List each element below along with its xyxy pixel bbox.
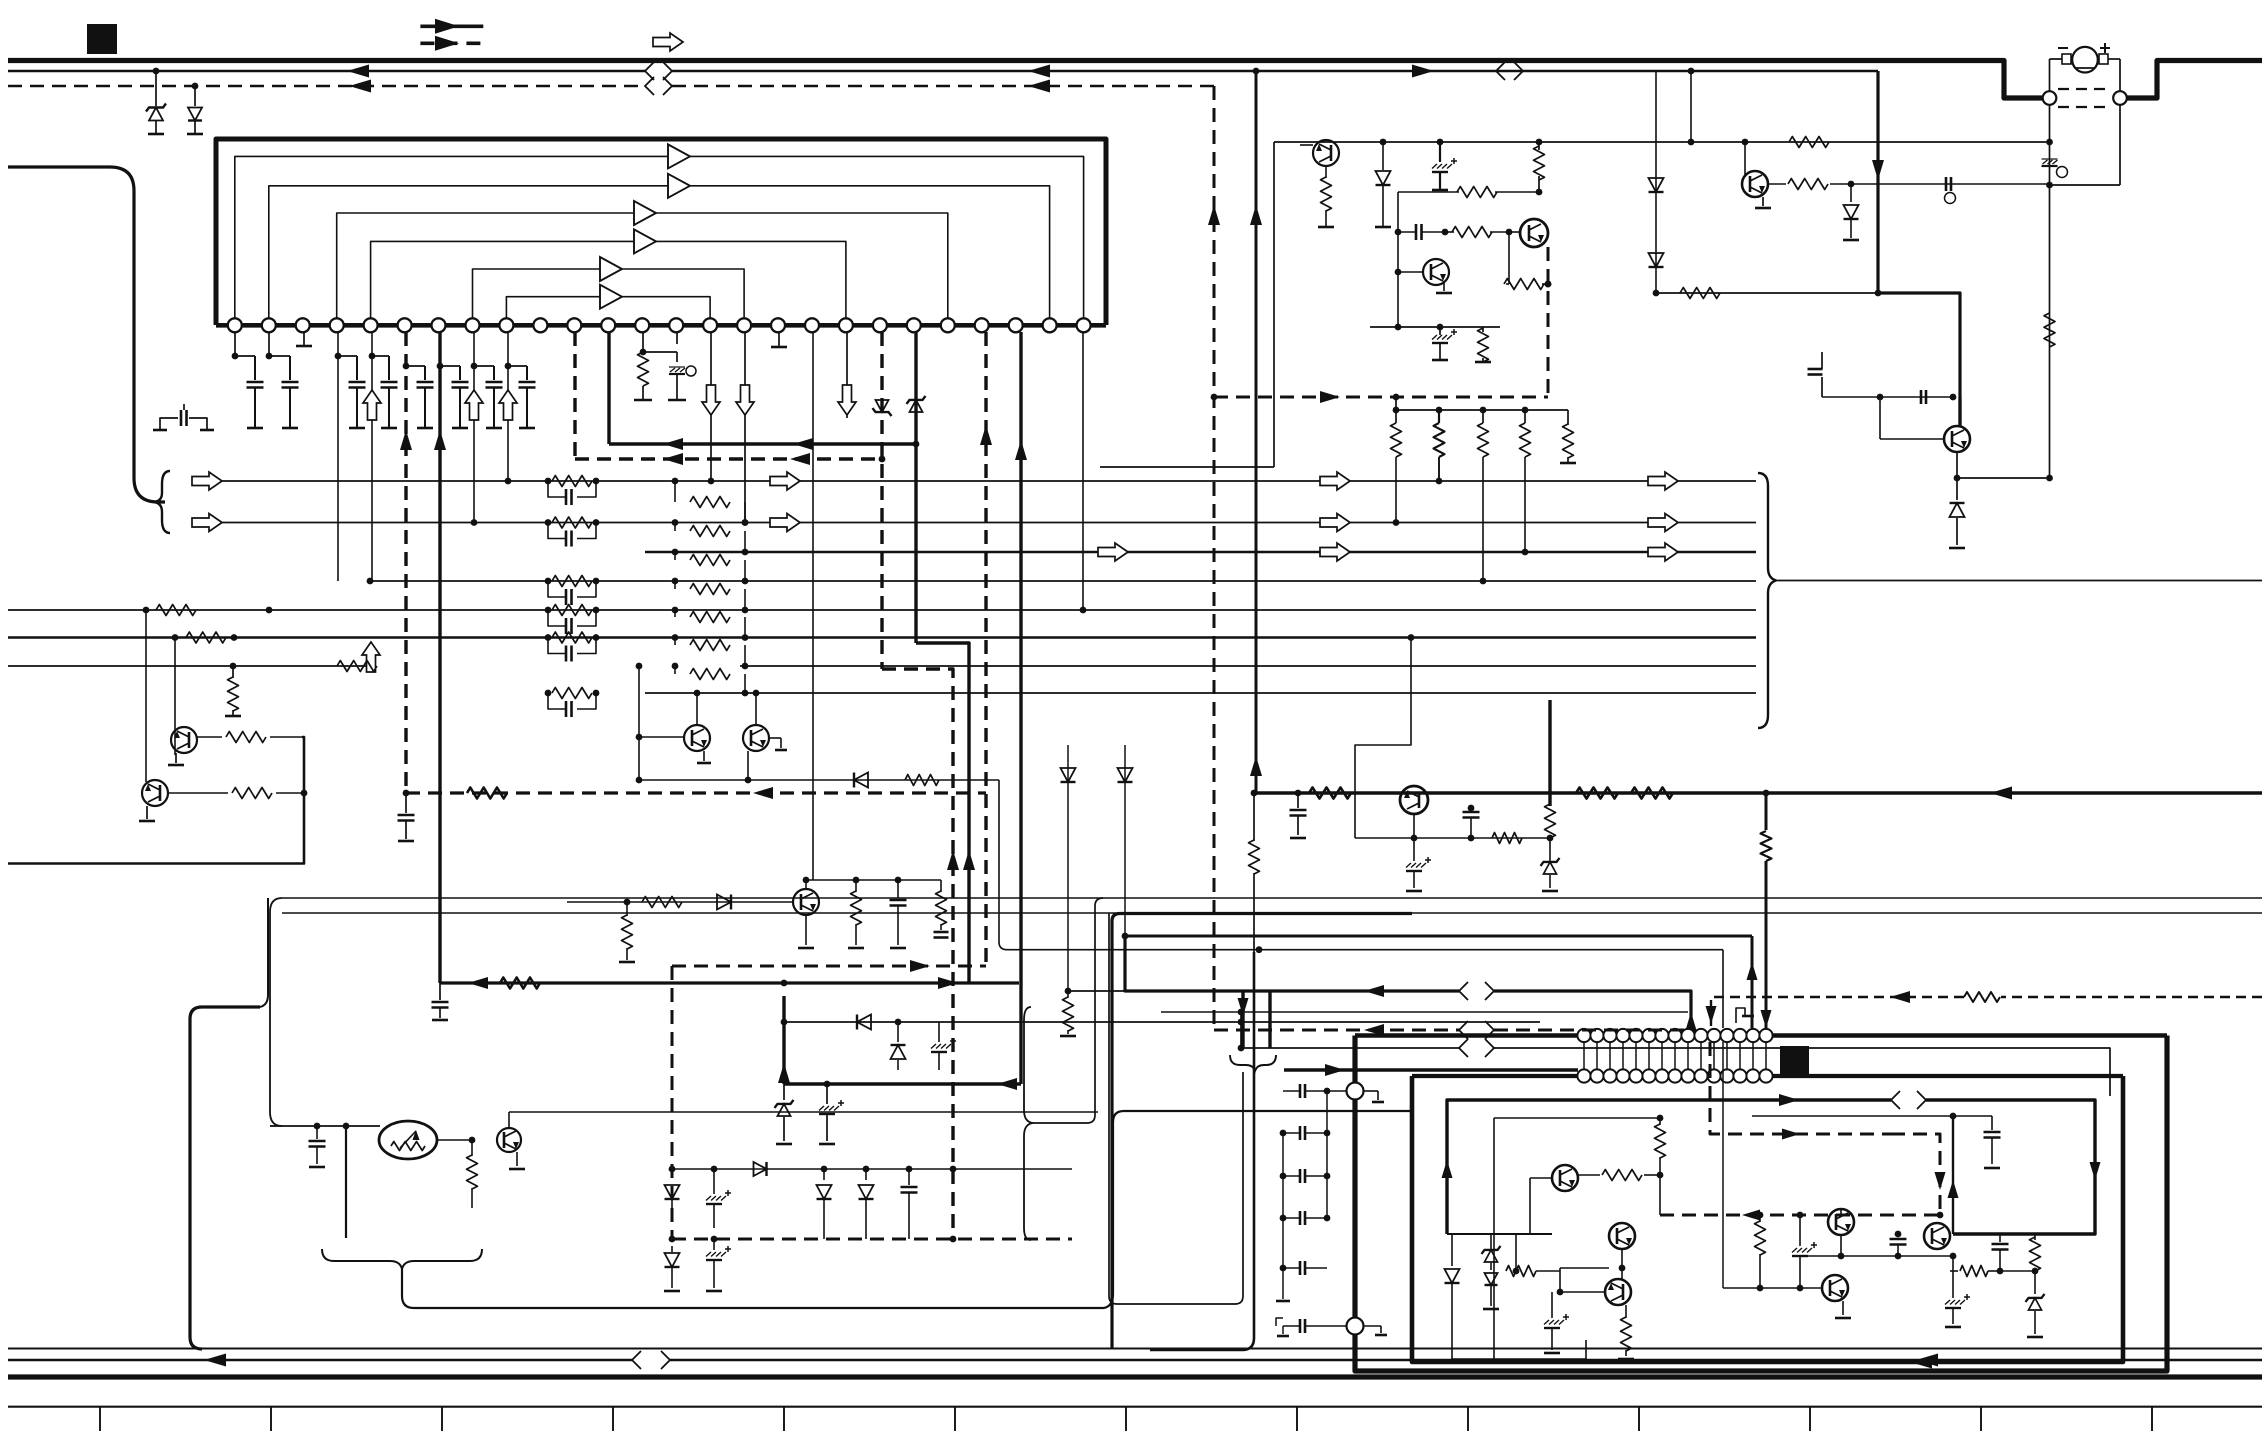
- buffer A4 output wire: [656, 241, 846, 318]
- trimmer cap pin13: [643, 352, 696, 400]
- diode D21: [817, 1169, 832, 1239]
- diode D22: [859, 1169, 874, 1239]
- wire interior bottom link: [1452, 1340, 1586, 1359]
- wire Q18 top: [753, 690, 760, 725]
- resistor R13: [1768, 179, 1854, 190]
- arrowhead left y793 main: [1990, 787, 2012, 800]
- transistor Q10: [1552, 1165, 1578, 1191]
- wire 1254 lower drop: [1150, 952, 1254, 1350]
- mini jumper symbol: [1736, 1008, 1754, 1023]
- diode D20: [754, 1162, 767, 1176]
- legend solid arrow: [420, 19, 483, 34]
- ladder resistor R15: [545, 632, 600, 643]
- wire thick stub 1243: [1241, 991, 1244, 1048]
- arrowhead down 1711: [1706, 1006, 1717, 1024]
- arrowhead right dashed interior: [1782, 1129, 1800, 1140]
- transistor Q9: [497, 1128, 521, 1152]
- transistor Q11: [1609, 1223, 1635, 1249]
- resistor R35: [1560, 410, 1576, 463]
- wire vertical 1656: [1655, 71, 1657, 293]
- wire dashed left edge: [669, 966, 676, 1242]
- capacitor C30: [901, 1169, 918, 1239]
- arrowhead right L7: [1325, 1064, 1345, 1076]
- break L5: [1459, 1021, 1494, 1039]
- arrowhead up on pin24 drop: [1015, 440, 1027, 460]
- capacitor C9 electrolytic: [1432, 142, 1457, 190]
- junction on top signal line 2: [1253, 68, 1260, 75]
- diode D5: [1649, 253, 1664, 267]
- transistor Q7: [142, 780, 168, 806]
- wire VR feed vertical: [270, 1123, 380, 1130]
- wire dashed link pins11-20: [575, 453, 885, 465]
- capacitor C33: [1290, 793, 1307, 838]
- resistor R7: [1534, 142, 1545, 195]
- resistor R16: [197, 732, 302, 743]
- wire underbrace stem: [402, 1269, 1104, 1308]
- wire thick interior L-path: [1447, 1100, 2095, 1234]
- wire vertical 1256 thick: [1255, 71, 1258, 793]
- wire brace riser: [1033, 898, 1103, 1123]
- arrowhead down interior: [2090, 1162, 2101, 1180]
- wire y327 line: [1370, 272, 1500, 330]
- diode D12: [1445, 1234, 1460, 1359]
- buffer A1 output wire: [690, 156, 1084, 318]
- IC U2 outer box: [1355, 1036, 2167, 1372]
- wire row5: [8, 609, 1756, 611]
- ground Q8: [798, 915, 814, 948]
- capacitor C23: [1890, 1231, 1907, 1256]
- wire 346 drop: [345, 1126, 347, 1238]
- wire - top signal line: [8, 70, 1878, 72]
- ladder capacitor C14: [548, 610, 596, 634]
- arrowhead left bottom bus: [204, 1354, 226, 1367]
- dashed link between connectors: [2058, 89, 2112, 107]
- arrowhead up 1953: [1948, 1180, 1959, 1198]
- wire vert 1069: [1067, 745, 1069, 991]
- wire y838 line: [1355, 835, 1553, 842]
- arrowhead up 1447: [1442, 1160, 1453, 1178]
- open arrow up on pin9 drop: [499, 390, 517, 420]
- wire bottom thick bus: [8, 1374, 2262, 1379]
- ground Q9: [509, 1152, 525, 1169]
- connector J4: [1347, 1318, 1388, 1336]
- wire y1288: [1723, 1287, 1822, 1289]
- wire Q4 base up: [1744, 142, 1746, 177]
- legend dashed arrow: [420, 36, 483, 51]
- resistor R50: [1309, 788, 1351, 799]
- trimmer testpoint 2049: [2042, 159, 2068, 178]
- open arrow row2 mid: [770, 514, 800, 532]
- ladder resistor R14: [545, 605, 600, 616]
- wire pin14 stub: [676, 332, 678, 344]
- legend open arrow: [653, 33, 683, 51]
- wire interior vert 1953: [1952, 1116, 1954, 1234]
- arrowhead right dashed loop: [1320, 391, 1340, 403]
- wire 1723 drop: [1722, 1042, 1724, 1288]
- wire battery right lead: [2119, 59, 2121, 91]
- IC U1 pin 13: [635, 318, 649, 332]
- wire pin26 drop: [1080, 332, 1087, 613]
- wire y397 line: [1822, 394, 1956, 401]
- arrowhead left dashed y1215: [1742, 1210, 1760, 1221]
- resistor R22: [619, 902, 635, 962]
- wire bottom arrow bus: [8, 1359, 2262, 1361]
- IC U1 pin 19: [839, 318, 853, 332]
- zener on pin21 drop: [907, 396, 926, 412]
- arrowhead right on signal line: [1412, 65, 1434, 78]
- wire battery left lead: [2049, 59, 2051, 91]
- wire pin21 jog: [916, 643, 969, 983]
- ladder resistor row8: [545, 688, 600, 718]
- zener diode D1: [146, 71, 166, 134]
- resistor R32: [1434, 410, 1445, 484]
- diode D14: [1483, 1273, 1499, 1309]
- buffer A5 output wire: [622, 269, 744, 318]
- bracket mid-left tall: [1024, 1007, 1033, 1240]
- zener D15: [2026, 1271, 2045, 1337]
- capacitor C11 electrolytic: [1432, 327, 1457, 360]
- resistor R3 row6: [172, 632, 238, 643]
- open arrow row3 mid2: [1320, 543, 1350, 561]
- wire dashed sub-loop: [1211, 394, 1548, 401]
- wire row4: [367, 578, 1756, 585]
- wire Q11-Q12 links: [1557, 1249, 1626, 1295]
- cascade resistor R24: [672, 578, 749, 614]
- resistor R18 on dashed: [467, 788, 507, 799]
- wire feed L4: [1161, 1009, 1688, 1016]
- wire dashed right entry: [1711, 992, 2262, 1028]
- resistor R34: [1520, 410, 1531, 555]
- buffer A4 input wire: [371, 241, 634, 318]
- IC U2 pin stubs: [1584, 1042, 1766, 1069]
- wire pin12 thick drop: [607, 332, 610, 444]
- wire y1256: [1792, 1253, 1956, 1260]
- wire drop row5: [145, 610, 147, 782]
- op-amp buffer A3: [634, 201, 656, 225]
- small RC network left: [153, 404, 214, 430]
- resistor R31: [1391, 410, 1402, 526]
- battery B1: [2050, 43, 2121, 73]
- wire pin6 dashed drop: [404, 332, 407, 793]
- IC U1 pin 7: [432, 318, 446, 332]
- resistor R33: [1478, 410, 1489, 584]
- diode D8: [717, 895, 731, 910]
- brace right of rows: [1758, 473, 1776, 728]
- wire Q9 top: [509, 1112, 1098, 1128]
- wire 1766 drop: [1765, 993, 1768, 1028]
- frame ruler ticks: [100, 1407, 2152, 1431]
- IC U1 pin 21: [907, 318, 921, 332]
- IC U1 pin 18: [805, 318, 819, 332]
- brace small left: [260, 898, 268, 1007]
- junction on top signal line: [153, 68, 160, 75]
- arrowhead left y983: [468, 977, 488, 989]
- wire y1022 line: [781, 1019, 1540, 1026]
- capacitor C5: [403, 363, 434, 428]
- wire dashed vertical 1214: [1213, 86, 1216, 1030]
- transistor Q14: [1822, 1275, 1848, 1301]
- resistor R25: [467, 1140, 478, 1208]
- ground Q3: [1436, 281, 1452, 293]
- resistor R2 row5: [143, 605, 273, 616]
- capacitor C20: [309, 1126, 326, 1167]
- wire pin1 stub: [232, 332, 255, 359]
- wire Q18 base stub: [769, 738, 787, 750]
- transistor Q16: [1400, 786, 1428, 814]
- capacitor C35: [1463, 805, 1480, 838]
- wire row8: [645, 692, 1756, 694]
- wire y780 line: [639, 779, 999, 781]
- buffer A6 output wire: [622, 297, 710, 319]
- wire pin9 drop: [505, 332, 512, 484]
- wire 913 drop loop: [1109, 913, 1243, 1304]
- capacitor C2: [282, 356, 299, 428]
- capacitor C34 electrolytic: [1406, 838, 1431, 891]
- IC U1 pin 14: [669, 318, 683, 332]
- arrowhead left dashed y793: [753, 787, 773, 799]
- op-amp buffer A4: [634, 229, 656, 253]
- arrowhead up 784: [778, 1063, 790, 1083]
- arrowhead up on pin23 drop: [980, 425, 992, 445]
- ladder resistor R13: [545, 576, 600, 587]
- wire inner thin left vert: [1494, 1115, 1663, 1359]
- junction on top signal line 3: [1688, 68, 1695, 75]
- capacitor C18 electrolytic: [819, 1084, 844, 1144]
- diode D24: [664, 1246, 680, 1291]
- resistor R4 below row7: [225, 663, 241, 716]
- wire bottom thin bus: [8, 1348, 2262, 1350]
- wire Q8 collector rail: [803, 877, 941, 889]
- open arrow down pin15: [702, 385, 720, 415]
- wire - top thick supply bus: [8, 61, 2262, 99]
- resistor R21: [642, 897, 682, 908]
- arrowhead left on signal line 2: [1028, 65, 1050, 78]
- wire loop up right: [1104, 1111, 1412, 1308]
- resistor R11: [1475, 327, 1491, 362]
- buffer A1 input wire: [235, 156, 668, 318]
- arrowhead left dashed entry: [1890, 991, 1910, 1003]
- arrowhead up 1214: [1208, 205, 1220, 225]
- wire pin15 drop: [708, 332, 715, 484]
- wire thick stub 1550: [1548, 700, 1551, 806]
- IC U1 pin 12: [601, 318, 615, 332]
- arrowhead up on pin7 drop: [434, 430, 446, 450]
- IC U1 pin 22: [941, 318, 955, 332]
- ground pin17: [771, 332, 787, 347]
- buffer A2 output wire: [690, 186, 1050, 318]
- wire pin20 dashed drop: [880, 332, 883, 669]
- IC U1 pin 6: [398, 318, 412, 332]
- arrowhead down dashed interior: [1935, 1172, 1946, 1190]
- resistor R41: [1578, 1170, 1660, 1181]
- capacitor C12 testpoint: [1945, 177, 1956, 204]
- wire dashed interior: [1710, 1042, 1940, 1215]
- resistor R42: [1506, 1234, 1560, 1277]
- break marks on dashed line: [645, 77, 672, 95]
- wire thick y793 main: [1251, 790, 2262, 797]
- open arrow up row7: [362, 642, 380, 672]
- capacitor C8: [508, 366, 536, 428]
- arrowhead left middle box bottom: [1910, 1356, 1932, 1369]
- resistor R15: [2044, 313, 2055, 347]
- wire 784 drop: [782, 996, 785, 1084]
- arrowhead up on dashed jog 953: [947, 850, 959, 870]
- frame bottom line: [8, 1406, 2262, 1408]
- resistor R55: [1545, 793, 1556, 838]
- diode D4: [1649, 178, 1664, 192]
- zener D30: [1541, 838, 1560, 891]
- IC U1 pin 23: [975, 318, 989, 332]
- connector J1: [2043, 91, 2057, 105]
- open arrow row2 right: [1648, 514, 1678, 532]
- break bottom arrow bus: [632, 1351, 670, 1369]
- resistor R40: [1655, 1118, 1666, 1178]
- transistor Q15: [1924, 1223, 1950, 1249]
- wire Q5 collector: [1958, 397, 1961, 426]
- transistor Q4: [1742, 171, 1768, 197]
- capacitor C6: [437, 363, 469, 428]
- wire Q17 base: [636, 734, 684, 741]
- IC U1 pin 20: [873, 318, 887, 332]
- wire Q5 emitter: [1954, 452, 2050, 481]
- diode D25: [1061, 768, 1076, 782]
- wire vert 1121: [1124, 745, 1126, 936]
- ladder resistor R11: [545, 476, 600, 487]
- IC U1 pin 4: [330, 318, 344, 332]
- wire vertical 1274: [1273, 142, 1275, 467]
- open arrow row1 mid2: [1320, 472, 1350, 490]
- wire pin18 drop: [812, 332, 814, 880]
- resistor R5 row7: [337, 661, 377, 672]
- arrowhead down 1243: [1238, 998, 1249, 1016]
- wire y293 line: [1653, 290, 1882, 297]
- resistor R44: [1950, 1266, 2003, 1277]
- ladder capacitor C15: [548, 638, 596, 662]
- IC U1 pin 3: [296, 318, 310, 332]
- underbrace IC2 feeds: [1230, 1055, 1276, 1071]
- IC U1 pin 26: [1077, 318, 1091, 332]
- resistor R54: [1492, 833, 1522, 844]
- transistor Q6: [171, 727, 197, 753]
- arrowhead down 1878: [1872, 160, 1884, 180]
- diode D11: [891, 1022, 906, 1070]
- wire left input trace: [8, 167, 165, 502]
- wire dashed y966: [672, 965, 986, 968]
- capacitor C26: [1992, 1234, 2009, 1271]
- ladder capacitor C12: [548, 523, 596, 547]
- diode D27: [854, 773, 868, 788]
- wire rows 898-913 pair: [282, 898, 2262, 913]
- wire row6: [8, 636, 1756, 639]
- capacitor C4: [372, 356, 398, 428]
- resistor R19 y983: [500, 978, 540, 989]
- wire pin11 dashed drop: [573, 332, 576, 459]
- wire L6 drop: [1240, 1012, 1242, 1048]
- transistor Q12: [1605, 1279, 1631, 1305]
- resistor R23: [848, 880, 864, 948]
- wire pin4 drop: [335, 332, 342, 581]
- cascade resistor R27: [672, 663, 749, 697]
- IC U1 pin 24: [1009, 318, 1023, 332]
- wire row7 right: [740, 665, 1756, 667]
- bracket rows pair: [270, 898, 282, 1126]
- IC U1 pin 2: [262, 318, 276, 332]
- wire pin19 drop: [846, 332, 848, 418]
- capacitor C19 electrolytic: [931, 1022, 956, 1070]
- IC U2 pin row lower: [1577, 1069, 1772, 1082]
- capacitor C21: [1953, 1116, 2001, 1168]
- arrowhead left y1084: [997, 1078, 1017, 1090]
- ladder resistor R12: [545, 517, 600, 528]
- resistor R51: [1576, 788, 1618, 799]
- capacitor C24 electrolytic: [1792, 1212, 1817, 1292]
- break L6: [1459, 1039, 1494, 1057]
- wire y1169 line: [672, 1166, 1072, 1173]
- wire Q10 base: [1447, 1178, 1552, 1234]
- resistor R24: [934, 880, 949, 938]
- open arrow row1 mid: [770, 472, 800, 490]
- wire vert 639: [636, 663, 643, 784]
- wire Q16 emitter: [1413, 814, 1415, 838]
- wire y991 mixed line: [1065, 933, 1691, 1028]
- transistor Q5: [1880, 426, 1970, 452]
- transistor Q18: [743, 725, 769, 751]
- arrowhead up on pin6 drop: [400, 430, 412, 450]
- arrowhead left on signal line: [347, 65, 369, 78]
- wire thick y983: [440, 980, 1019, 987]
- open arrow down pin16: [736, 385, 754, 415]
- capacitor C10: [1398, 224, 1448, 240]
- buffer A3 input wire: [337, 213, 634, 318]
- IC U1 pin 9: [499, 318, 513, 332]
- ground Q4: [1755, 197, 1771, 208]
- resistor R45: [2000, 1234, 2041, 1274]
- power flag 2 (black square): [1780, 1046, 1809, 1075]
- diode D26: [1118, 768, 1133, 782]
- capacitor C16: [432, 983, 449, 1020]
- wire y184 line: [1851, 182, 2053, 189]
- buffer A6 input wire: [506, 297, 600, 319]
- wire VR to Q9: [437, 1137, 475, 1144]
- connector J2: [2113, 91, 2127, 105]
- arrowhead right interior: [1779, 1094, 1799, 1106]
- IC U1 pin 5: [364, 318, 378, 332]
- wire dashed y1215: [1660, 1212, 1943, 1219]
- open arrow down pin19: [838, 385, 856, 415]
- wire thick curve 1112: [1112, 914, 1412, 1349]
- wire vertical 1398: [1395, 192, 1402, 275]
- IC U1 pin 17: [771, 318, 785, 332]
- wire feed thick y936: [1125, 936, 1752, 1028]
- wire connector J2 down: [2050, 105, 2121, 185]
- wire vertical 1691: [1688, 71, 1695, 145]
- zener D13: [1482, 1234, 1501, 1270]
- capacitor C32 electrolytic: [706, 1239, 731, 1291]
- cascade resistor R21: [672, 478, 749, 526]
- junction on dashed line: [192, 83, 199, 90]
- transistor Q13: [1828, 1209, 1854, 1235]
- ground Q17: [697, 751, 711, 763]
- capacitor C15: [398, 793, 415, 841]
- capacitor C3: [338, 356, 366, 428]
- open arrow row2: [192, 514, 222, 532]
- arrowhead left L5: [1364, 1024, 1384, 1036]
- IC U1 bottom edge: [216, 323, 1106, 328]
- break marks on signal line: [645, 62, 672, 80]
- diode D6: [1843, 184, 1859, 240]
- capacitor C31 electrolytic: [706, 1169, 731, 1228]
- wire Q8 base line: [567, 899, 793, 906]
